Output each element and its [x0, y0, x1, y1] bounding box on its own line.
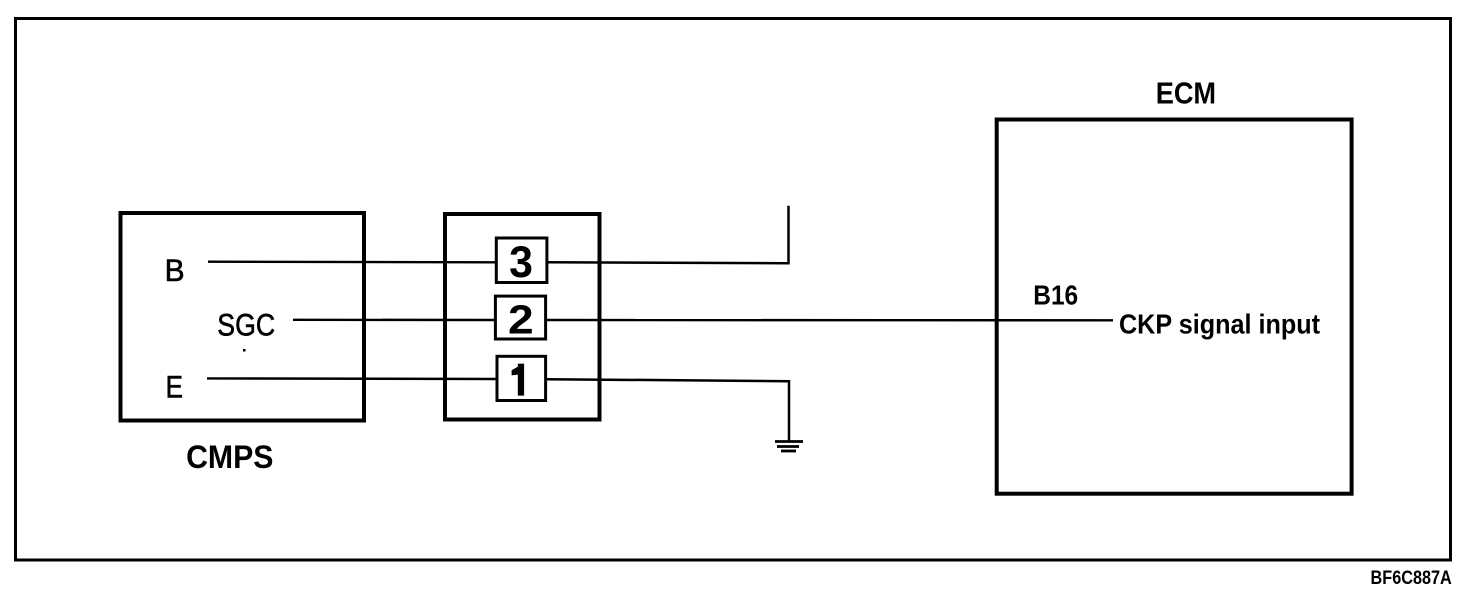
connector pin 1 box: [497, 356, 546, 400]
connector box: [445, 214, 600, 420]
svg-text:CMPS: CMPS: [186, 439, 273, 475]
pin number 1: [512, 364, 524, 396]
wire pin 3 to stub: [547, 206, 789, 264]
svg-text:ECM: ECM: [1156, 77, 1216, 111]
CMPS sensor box: [121, 213, 365, 421]
wire SGC to pin 2: [293, 319, 496, 322]
svg-text:CKP signal input: CKP signal input: [1119, 308, 1320, 339]
svg-text:B: B: [165, 253, 185, 288]
svg-text:3: 3: [509, 237, 533, 287]
svg-text:B16: B16: [1033, 279, 1078, 311]
wire E to pin 1: [207, 377, 497, 380]
svg-text:2: 2: [508, 298, 534, 343]
svg-text:E: E: [166, 371, 183, 406]
wire B to pin 3: [208, 261, 496, 264]
ECM box: [997, 120, 1352, 494]
wire pin 1 to ground: [546, 379, 789, 441]
ground: [775, 442, 803, 452]
connector pin 2 box: [495, 296, 545, 339]
connector pin 3 box: [496, 238, 547, 283]
svg-text:BF6C887A: BF6C887A: [1371, 567, 1452, 589]
scan speck: [243, 349, 246, 352]
svg-text:SGC: SGC: [217, 309, 275, 343]
wire pin 2 to ECM B16: [546, 319, 1113, 322]
